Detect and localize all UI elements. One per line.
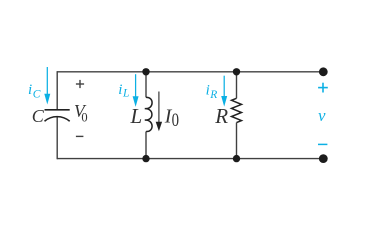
svg-text:C: C bbox=[32, 106, 45, 126]
svg-text:i: i bbox=[28, 82, 32, 98]
inductor L bbox=[145, 97, 152, 131]
arrow iC bbox=[44, 67, 50, 105]
svg-text:C: C bbox=[33, 89, 41, 101]
svg-text:i: i bbox=[206, 82, 210, 98]
plus v bbox=[318, 83, 328, 93]
svg-text:0: 0 bbox=[81, 111, 87, 125]
arrow I0 bbox=[156, 92, 162, 132]
wire inductor upper bbox=[145, 72, 147, 98]
junction node top L bbox=[142, 68, 149, 75]
svg-text:v: v bbox=[318, 106, 326, 125]
svg-text:R: R bbox=[209, 89, 217, 101]
junction node bottom R bbox=[233, 155, 240, 162]
terminal node bottom bbox=[319, 154, 328, 163]
wire resistor lower bbox=[236, 123, 238, 159]
wire resistor upper bbox=[236, 72, 238, 99]
svg-text:i: i bbox=[118, 82, 122, 98]
arrow iR bbox=[221, 76, 227, 107]
junction node top R bbox=[233, 68, 240, 75]
minus V0 bbox=[76, 135, 84, 137]
plus V0 bbox=[76, 80, 84, 88]
resistor R zigzag bbox=[232, 98, 242, 122]
minus v bbox=[318, 143, 327, 145]
svg-text:R: R bbox=[214, 104, 228, 128]
svg-text:L: L bbox=[130, 104, 143, 128]
terminal node top bbox=[319, 67, 328, 76]
wire top bbox=[57, 71, 323, 73]
svg-text:0: 0 bbox=[172, 109, 179, 130]
wire inductor lower bbox=[145, 132, 147, 159]
wire left upper bbox=[56, 71, 58, 110]
capacitor C bbox=[45, 110, 70, 121]
junction node bottom L bbox=[142, 155, 149, 162]
svg-text:L: L bbox=[122, 88, 129, 100]
arrow iL bbox=[133, 74, 139, 107]
wire left lower bbox=[56, 117, 58, 160]
wire bottom bbox=[57, 158, 323, 160]
